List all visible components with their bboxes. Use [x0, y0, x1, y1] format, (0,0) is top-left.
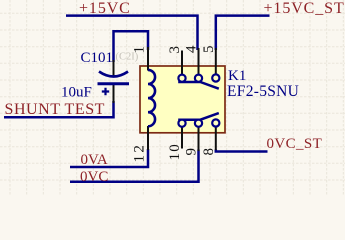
contact blade bottom [178, 113, 219, 120]
svg-text:3: 3 [167, 46, 183, 54]
pin 12 [147, 126, 149, 150]
svg-text:4: 4 [184, 45, 200, 53]
svg-text:K1: K1 [228, 68, 246, 84]
pin 8 [215, 127, 217, 151]
pin 1 [147, 47, 149, 71]
contact circle pin 8 [212, 119, 219, 126]
svg-text:0VC: 0VC [80, 169, 108, 185]
pin 4 [198, 48, 200, 75]
wire SHUNT TEST to C101 bottom [4, 101, 114, 117]
svg-text:0VA: 0VA [81, 152, 108, 168]
contact circle pin 3 [178, 75, 185, 82]
svg-text:+15VC: +15VC [79, 0, 131, 17]
capacitor C101 straight plate [98, 82, 130, 85]
capacitor C101 top pin [113, 60, 115, 76]
pin 9 [198, 127, 200, 152]
contact circle pin 10 [178, 120, 185, 127]
svg-text:+15VC_ST: +15VC_ST [264, 0, 345, 17]
contact blade top [178, 82, 219, 89]
svg-text:0VC_ST: 0VC_ST [267, 136, 323, 152]
capacitor C101 bottom pin [113, 85, 115, 103]
svg-text:10uF: 10uF [61, 85, 92, 101]
pin 3 [181, 51, 183, 76]
svg-text:5: 5 [201, 46, 217, 54]
svg-text:12: 12 [132, 143, 148, 163]
wire +15VC to pin 4 [66, 16, 198, 50]
contact circle pin 9 [195, 120, 202, 127]
wire 0VC to pin 9 [70, 150, 199, 182]
wire C101 top to pin 1 [114, 31, 149, 62]
svg-text:9: 9 [184, 148, 200, 156]
svg-text:EF2-5SNU: EF2-5SNU [227, 83, 299, 100]
wire 0VC_ST to pin 8 [216, 150, 268, 152]
svg-text:SHUNT TEST: SHUNT TEST [5, 101, 105, 118]
relay coil [148, 70, 155, 126]
pin 5 [215, 48, 217, 75]
contact circle pin 4 [195, 75, 202, 82]
relay K1 body [140, 66, 225, 133]
capacitor plus sign [102, 88, 109, 95]
contact circle pin 5 [212, 74, 219, 81]
wire +15VC_ST to pin 5 [216, 16, 270, 50]
svg-text:8: 8 [201, 148, 217, 156]
svg-text:C101: C101 [81, 50, 114, 66]
capacitor C101 curved plate [99, 72, 128, 77]
svg-text:10: 10 [167, 143, 183, 160]
svg-text:1: 1 [132, 46, 148, 54]
pin 10 [181, 127, 183, 149]
wire 0VA to pin 12 [70, 149, 148, 167]
